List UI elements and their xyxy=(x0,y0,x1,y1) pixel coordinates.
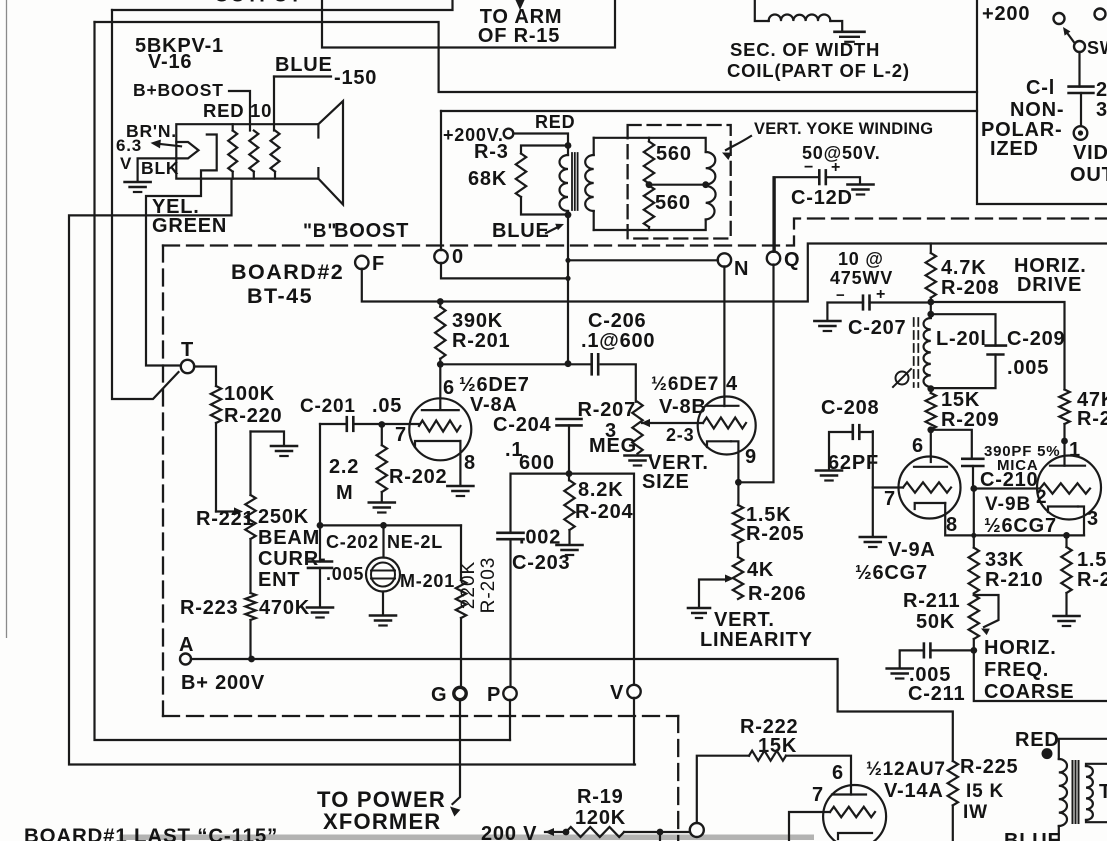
text 4 pin V-8B xyxy=(726,373,738,395)
ground V-8A cathode xyxy=(447,486,473,496)
wire R-221 top to gnd xyxy=(251,432,285,446)
text V-8A xyxy=(470,394,518,416)
text LINEARITY xyxy=(700,629,813,651)
svg-text:C-201: C-201 xyxy=(300,396,356,417)
wire F down and long 200V rail xyxy=(362,244,1107,302)
text half 6DE7 V-8A xyxy=(459,374,530,396)
wire P down xyxy=(509,700,511,740)
wire YEL path xyxy=(146,179,201,366)
text A xyxy=(179,634,194,656)
svg-text:.05: .05 xyxy=(372,395,402,417)
text R-3 xyxy=(474,141,509,163)
capacitor C-12D marks xyxy=(804,159,841,176)
text R-207 xyxy=(578,399,636,421)
resistor R-222 15K xyxy=(697,751,851,823)
dashed yoke box xyxy=(628,125,731,239)
svg-text:4K: 4K xyxy=(747,559,774,581)
text V-8B xyxy=(659,396,707,418)
svg-text:50K: 50K xyxy=(916,611,955,633)
text C-208 xyxy=(821,397,879,419)
svg-text:B+ 200V: B+ 200V xyxy=(181,672,265,694)
neon NE-2L M-201 xyxy=(366,525,400,614)
text SW xyxy=(1087,38,1107,58)
svg-text:T: T xyxy=(181,339,194,361)
scan gray streak bottom xyxy=(119,835,814,841)
text .1@600 xyxy=(581,330,655,352)
text 10@ xyxy=(838,249,884,269)
svg-text:7: 7 xyxy=(812,784,824,806)
wire R-211 wiper loop xyxy=(974,595,999,635)
svg-text:P: P xyxy=(487,684,501,706)
resistor R-204 8.2K xyxy=(564,474,574,544)
svg-text:R-221: R-221 xyxy=(196,508,254,530)
text 8 pin V-8A xyxy=(464,452,476,474)
text NON- xyxy=(1010,99,1064,121)
text BLUE crt xyxy=(275,54,333,76)
ground R-202 xyxy=(369,503,395,513)
svg-text:V: V xyxy=(610,682,624,704)
svg-text:.005: .005 xyxy=(326,564,364,584)
resistor 47K top right xyxy=(1059,390,1069,425)
text C-209 xyxy=(1007,328,1065,350)
junction R-209 bottom xyxy=(927,426,934,433)
capacitor C-210 xyxy=(962,459,983,466)
text F xyxy=(372,253,385,275)
text DRIVE xyxy=(1017,274,1082,296)
text 390PF 5% xyxy=(984,443,1060,460)
xfmr left winding xyxy=(1059,739,1107,841)
xfmr core xyxy=(1073,761,1079,823)
text VERT. size xyxy=(648,452,709,474)
svg-text:FREQ.: FREQ. xyxy=(984,659,1049,681)
svg-text:SIZE: SIZE xyxy=(642,471,690,493)
svg-text:IW: IW xyxy=(963,802,988,823)
svg-text:C-209: C-209 xyxy=(1007,328,1065,350)
resistor R-208 4.7K xyxy=(926,244,936,303)
text V-9B xyxy=(985,494,1031,515)
text R-220 xyxy=(224,405,282,427)
ground width coil xyxy=(835,32,865,42)
tube V-14A plate xyxy=(832,793,866,795)
text C-204 xyxy=(493,414,552,436)
ground C-202 xyxy=(307,608,333,618)
text 15K xyxy=(941,389,980,411)
text V-14A xyxy=(884,780,944,802)
text BOARD#2 xyxy=(231,260,344,284)
svg-text:4: 4 xyxy=(726,373,738,395)
text CURR- xyxy=(258,548,326,570)
svg-text:C-l: C-l xyxy=(1026,77,1055,99)
svg-text:R-220: R-220 xyxy=(224,405,282,427)
text R-206 xyxy=(748,583,806,605)
terminal SW xyxy=(1074,41,1085,52)
svg-text:XFORMER: XFORMER xyxy=(323,809,441,834)
text 1 pin V-9B xyxy=(1069,439,1081,461)
text V heater xyxy=(120,154,132,173)
wire neon row xyxy=(320,424,461,525)
svg-text:V-9A: V-9A xyxy=(888,539,936,561)
svg-text:600: 600 xyxy=(519,452,555,474)
text 2 pin V-9B xyxy=(1036,487,1047,508)
svg-text:.1@600: .1@600 xyxy=(581,330,655,352)
wire GREEN path xyxy=(69,179,635,765)
text 470K xyxy=(259,597,310,619)
svg-text:½6CG7: ½6CG7 xyxy=(855,562,928,584)
wire V down xyxy=(633,698,635,765)
svg-text:33K: 33K xyxy=(985,549,1024,571)
text NE-2L xyxy=(387,532,443,552)
svg-text:BR'N.: BR'N. xyxy=(126,121,177,141)
svg-text:IZED: IZED xyxy=(990,138,1039,160)
text OUT xyxy=(1070,164,1107,186)
text 7 pin V-9A xyxy=(884,488,896,510)
wire C-203 to P xyxy=(509,539,511,687)
text V-16 xyxy=(148,51,192,73)
text BLK xyxy=(141,158,179,178)
wire B+BOOST hook xyxy=(229,91,250,131)
text 3 pin V-9B xyxy=(1087,508,1099,530)
wire 200V line xyxy=(545,831,566,833)
svg-text:R-225: R-225 xyxy=(960,756,1018,778)
svg-text:G: G xyxy=(431,684,447,706)
svg-text:68K: 68K xyxy=(468,168,507,190)
dashed board2 border bottom xyxy=(163,715,678,717)
terminal P xyxy=(503,687,516,700)
terminal +200V xyxy=(504,129,514,139)
svg-text:+200: +200 xyxy=(982,3,1030,25)
svg-text:T: T xyxy=(1099,781,1107,803)
tube V-8A grid xyxy=(419,421,460,432)
junction C-211 xyxy=(970,647,977,654)
svg-text:120K: 120K xyxy=(575,807,626,829)
text VERT. linearity xyxy=(714,609,775,631)
text 15K r222 xyxy=(758,735,797,757)
text G xyxy=(431,684,447,706)
wire second top line xyxy=(95,22,978,92)
wire V-8A cathode to gnd xyxy=(459,441,461,485)
coil L-201 xyxy=(924,302,931,389)
text half 12AU7 xyxy=(866,759,946,780)
text 6 pin V-8A xyxy=(443,377,455,399)
svg-text:390K: 390K xyxy=(452,310,503,332)
svg-text:C-204: C-204 xyxy=(493,414,552,436)
text 33K xyxy=(985,549,1024,571)
tube V-9B envelope xyxy=(1037,456,1101,520)
text .005 c209 xyxy=(1007,357,1049,379)
wire SW to C-1 xyxy=(1078,52,1080,87)
text M xyxy=(336,482,353,504)
junction V-9B grid node xyxy=(970,485,977,492)
wire boost vertical xyxy=(567,215,569,364)
svg-text:R-209: R-209 xyxy=(941,409,999,431)
junction N wire xyxy=(565,258,570,263)
text cut-off OUTPUT label xyxy=(214,0,302,7)
resistor R-202 2.2M xyxy=(377,425,387,502)
svg-text:100K: 100K xyxy=(224,383,275,405)
wire R-3 loop top xyxy=(521,146,568,154)
text B BOOST xyxy=(303,220,409,242)
text R-211 xyxy=(903,590,960,612)
wire R-211 bottom xyxy=(974,639,1107,701)
svg-text:C-210: C-210 xyxy=(980,469,1038,491)
text BLUE yoke xyxy=(492,220,550,242)
tube V-8B envelope xyxy=(698,397,756,455)
wire junction down xyxy=(659,832,661,841)
svg-text:-150: -150 xyxy=(334,67,377,89)
svg-text:V-16: V-16 xyxy=(148,51,192,73)
scan edge line xyxy=(6,0,8,638)
svg-text:+: + xyxy=(831,159,841,176)
wire node to 47K xyxy=(931,302,1065,390)
svg-text:L-20l: L-20l xyxy=(936,328,987,350)
svg-text:R-2: R-2 xyxy=(1077,569,1107,591)
svg-text:BLK: BLK xyxy=(141,158,179,178)
svg-text:V-14A: V-14A xyxy=(884,780,944,802)
text +200V. xyxy=(443,125,504,145)
svg-text:6: 6 xyxy=(912,435,924,457)
capacitor C-204 xyxy=(557,419,582,425)
svg-text:ENT: ENT xyxy=(258,569,300,591)
ground C-208 xyxy=(816,471,842,481)
wire B+ rail xyxy=(191,659,953,761)
text COIL(PART OF L-2) xyxy=(727,60,910,81)
svg-text:A: A xyxy=(179,634,194,656)
CRT neck outline xyxy=(176,124,318,178)
text 10 heater xyxy=(250,100,272,121)
text BT-45 xyxy=(247,284,313,308)
capacitor C-211 xyxy=(924,644,931,658)
dashed board1 border right xyxy=(677,716,679,841)
svg-text:250K: 250K xyxy=(258,506,309,528)
svg-text:BLUE: BLUE xyxy=(492,220,550,242)
xfmr right winding xyxy=(1086,764,1107,822)
resistor R-225 15K 1W xyxy=(948,761,958,841)
text RED heater xyxy=(203,100,244,121)
svg-text:M-201: M-201 xyxy=(400,571,455,591)
wire Q up xyxy=(772,177,774,252)
svg-text:BT-45: BT-45 xyxy=(247,284,313,308)
svg-text:NE-2L: NE-2L xyxy=(387,532,443,552)
text 8 pin V-9A xyxy=(946,514,958,536)
svg-text:DRIVE: DRIVE xyxy=(1017,274,1082,296)
junction R-19 left xyxy=(563,829,570,836)
svg-text:R-211: R-211 xyxy=(903,590,960,612)
text VERT. YOKE WINDING xyxy=(754,120,933,138)
resistor R-3 68K xyxy=(516,154,526,198)
text C-202 xyxy=(326,532,379,552)
text SEC. OF WIDTH xyxy=(730,39,880,60)
svg-text:475WV: 475WV xyxy=(830,268,893,288)
CRT heater resistor blue xyxy=(271,131,280,179)
resistor R-210 33K xyxy=(969,489,979,594)
wire C-207 right xyxy=(870,301,931,303)
text Q xyxy=(784,249,800,271)
wire pin6 V-9A xyxy=(930,430,932,462)
svg-text:560: 560 xyxy=(656,143,692,165)
svg-text:R-223: R-223 xyxy=(180,597,238,619)
terminal VID OUT bullseye xyxy=(1074,126,1088,140)
text R-221 xyxy=(196,508,254,530)
text R-210 xyxy=(985,569,1043,591)
text R-202 xyxy=(389,466,447,488)
tube V-14A grid xyxy=(830,807,875,817)
junction L-201 bottom xyxy=(927,385,934,392)
svg-text:R-201: R-201 xyxy=(452,330,510,352)
tube V-8B plate xyxy=(706,405,739,407)
svg-text:R-3: R-3 xyxy=(474,141,509,163)
svg-text:R-204: R-204 xyxy=(575,501,634,523)
potentiometer R-207 3MEG xyxy=(632,402,642,454)
svg-text:C-206: C-206 xyxy=(588,310,646,332)
junction NE-2L top xyxy=(380,522,387,529)
capacitor C-201 xyxy=(347,417,354,431)
text 6 pin V-14A xyxy=(832,762,844,784)
svg-text:+: + xyxy=(876,286,886,303)
svg-text:BOARD#2: BOARD#2 xyxy=(231,260,344,284)
text 68K xyxy=(468,168,507,190)
svg-text:BOARD#1 LAST “C-115”: BOARD#1 LAST “C-115” xyxy=(24,825,278,841)
capacitor C-208 xyxy=(853,425,860,439)
wire left line to switch xyxy=(112,10,179,399)
svg-text:C-208: C-208 xyxy=(821,397,879,419)
dashed board2 border left xyxy=(162,246,164,717)
text R-201 xyxy=(452,330,510,352)
junction C-206 node xyxy=(565,360,572,367)
arrow yoke label xyxy=(722,136,751,160)
CRT heater resistor mid xyxy=(249,131,258,179)
text 7 pin V-8A xyxy=(395,424,407,446)
capacitor C-206 xyxy=(592,354,599,374)
text IZED xyxy=(990,138,1039,160)
wire V-8B cathode lead xyxy=(731,441,738,482)
text C-210 xyxy=(980,469,1038,491)
text C-1 xyxy=(1026,77,1055,99)
tube V-8B cathode xyxy=(707,441,731,447)
ground R-206 xyxy=(688,608,710,618)
text P xyxy=(487,684,501,706)
svg-text:OUTPUT: OUTPUT xyxy=(214,0,302,7)
svg-text:"B": "B" xyxy=(303,221,337,242)
text 3 value xyxy=(1096,99,1107,121)
svg-text:470K: 470K xyxy=(259,597,310,619)
text TO POWER xyxy=(317,787,446,812)
svg-text:RED: RED xyxy=(535,112,575,132)
wire V-9B grid lead xyxy=(974,487,1040,489)
svg-text:OUT: OUT xyxy=(1070,164,1107,186)
wire C-210 branch xyxy=(931,430,972,459)
junction R-201 top xyxy=(437,298,444,305)
wire BLUE lead xyxy=(274,77,331,131)
text VID xyxy=(1073,142,1107,164)
arrow into R-15 box xyxy=(516,0,525,10)
svg-text:R-202: R-202 xyxy=(389,466,447,488)
junction L-201 top xyxy=(927,311,934,318)
svg-text:BLUE: BLUE xyxy=(1004,830,1062,841)
svg-text:R-205: R-205 xyxy=(746,523,804,545)
text 600 xyxy=(519,452,555,474)
svg-text:15K: 15K xyxy=(941,389,980,411)
svg-text:SEC. OF WIDTH: SEC. OF WIDTH xyxy=(730,39,880,60)
vert output transformer primary xyxy=(560,146,569,216)
text R-208 xyxy=(941,277,999,299)
junction grid R-202 xyxy=(378,421,385,428)
tube V-8B grid xyxy=(703,418,746,429)
text 220K rotated xyxy=(458,561,479,609)
text .1 xyxy=(505,439,523,461)
svg-text:200 V: 200 V xyxy=(481,823,537,841)
tube V-8A envelope xyxy=(409,398,471,460)
terminal V xyxy=(627,685,640,698)
text R-222 xyxy=(740,716,798,738)
text B+ 200V xyxy=(181,672,265,694)
text -150 xyxy=(334,67,377,89)
svg-text:R-210: R-210 xyxy=(985,569,1043,591)
terminal G bold xyxy=(454,687,466,699)
potentiometer R-206 4K xyxy=(733,543,743,599)
yoke winding coils xyxy=(706,152,716,220)
wire left long P line xyxy=(95,22,511,740)
text C-211 xyxy=(908,683,965,705)
wire Q down xyxy=(738,265,773,483)
junction 1.5K top xyxy=(1063,532,1070,539)
svg-text:M: M xyxy=(336,482,353,504)
junction cathode cross xyxy=(971,533,976,538)
svg-text:8: 8 xyxy=(946,514,958,536)
wire V-9A grid lead xyxy=(873,486,903,488)
text 9 pin V-8B xyxy=(745,446,757,468)
ground C-12D xyxy=(848,185,874,195)
text C-203 xyxy=(512,552,570,574)
capacitor C-203 xyxy=(498,533,524,539)
text GREEN xyxy=(152,215,227,237)
text R-2 right xyxy=(1077,569,1107,591)
box right outer xyxy=(977,0,1107,204)
wire T to R-220 xyxy=(194,367,216,387)
terminal +200 switch top xyxy=(1054,13,1065,24)
svg-text:F: F xyxy=(372,253,385,275)
text MICA xyxy=(997,457,1039,474)
capacitor C-202 xyxy=(308,525,332,606)
text 2.2 xyxy=(329,456,359,478)
wire BLK to ground xyxy=(138,158,177,180)
box TO ARM OF R-15 xyxy=(322,0,615,48)
svg-text:7: 7 xyxy=(884,488,896,510)
wire V-8A grid lead xyxy=(354,423,420,425)
text ENT xyxy=(258,569,300,591)
resistor R-201 390K xyxy=(435,302,445,365)
wire C-209 branch xyxy=(931,314,996,388)
symbol phi adjustable core xyxy=(893,369,911,387)
CRT heater resistor red xyxy=(228,124,237,178)
arrow R-220 to R-221 xyxy=(216,507,243,515)
wire R-3 loop bottom xyxy=(521,197,568,215)
text C-201 .05 xyxy=(300,395,402,417)
wire C-12D right to ground xyxy=(826,177,860,184)
svg-text:4.7K: 4.7K xyxy=(941,257,986,279)
text BLUE xfmr xyxy=(1004,830,1062,841)
ground R-221 xyxy=(271,446,297,456)
text XFORMER xyxy=(323,809,441,834)
text FREQ. xyxy=(984,659,1049,681)
svg-text:R-206: R-206 xyxy=(748,583,806,605)
tube V-14A cathode xyxy=(838,833,872,839)
junction C-202 top xyxy=(317,522,324,529)
text T xyxy=(181,339,194,361)
wire V-9B plate pin xyxy=(1063,424,1065,466)
text .005 c211 xyxy=(909,664,951,686)
text TO ARM xyxy=(480,6,563,28)
CRT grid element xyxy=(201,135,217,179)
